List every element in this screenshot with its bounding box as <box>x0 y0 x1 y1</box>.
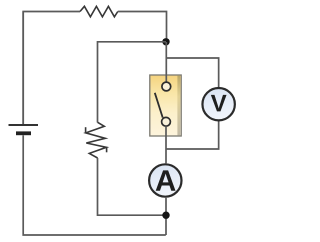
battery short plate (-) <box>16 131 31 135</box>
wire switch to ammeter <box>165 126 167 163</box>
switch highlight box <box>150 75 181 136</box>
resistor R1 (top) <box>80 6 118 16</box>
wire node to switch <box>165 42 167 82</box>
resistor R2 coil stub left <box>85 127 87 133</box>
wire voltmeter bottom branch <box>166 121 219 150</box>
switch bottom contact <box>162 117 171 126</box>
switch box bevel band right <box>177 76 180 136</box>
battery long plate (+) <box>9 124 39 126</box>
voltmeter label V <box>211 95 227 112</box>
voltmeter U1 circle <box>202 88 234 120</box>
wire voltmeter top branch <box>166 58 218 88</box>
resistor R2 coil stub right <box>106 147 108 152</box>
resistor R2 (middle, vertical) <box>86 122 107 158</box>
wire top-left horizontal <box>23 12 80 125</box>
node junction bottom <box>162 212 169 219</box>
ammeter label A <box>156 170 176 190</box>
wire middle branch horizontal <box>98 42 167 123</box>
switch blade (open) <box>155 93 163 118</box>
wire top-right horizontal and down to node <box>118 12 167 43</box>
wire ammeter to bottom node <box>165 198 167 235</box>
wire R2 bottom to bottom rail <box>98 158 167 215</box>
switch top contact <box>162 82 171 91</box>
battery wire upper <box>22 12 24 125</box>
battery wire lower and bottom rail <box>23 135 166 235</box>
ammeter U2 circle <box>149 164 181 196</box>
node junction top <box>162 38 169 45</box>
